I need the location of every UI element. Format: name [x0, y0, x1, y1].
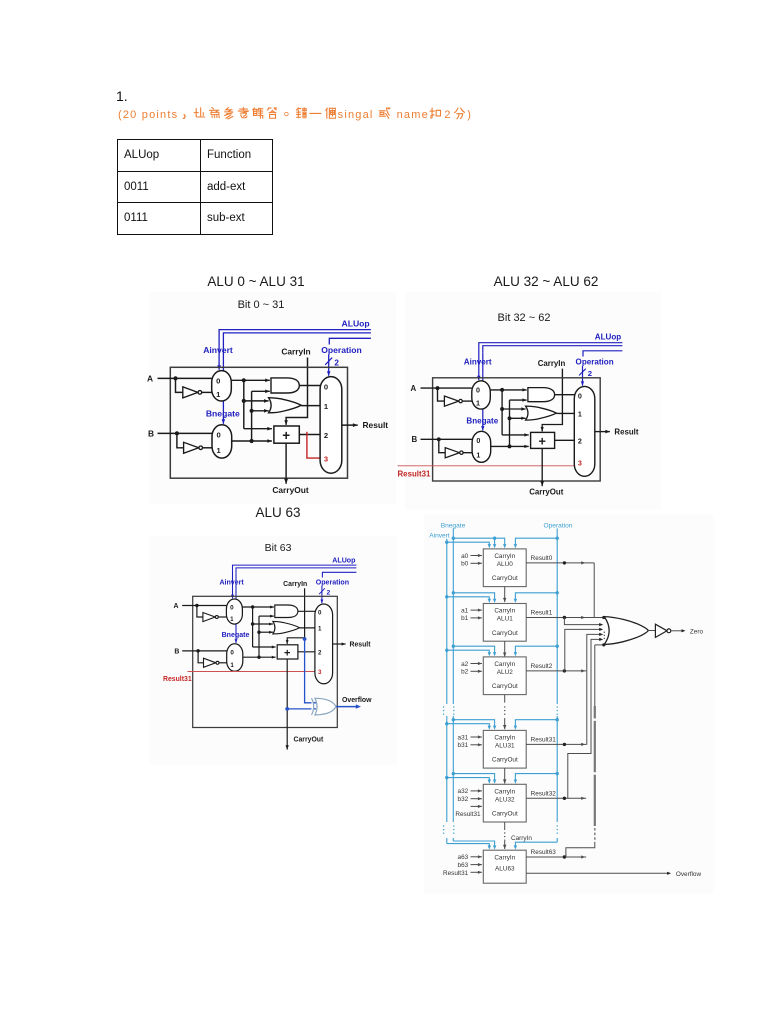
- cascade ALU63 result wire arrow: [581, 855, 585, 858]
- d2 wire A to inverter: [438, 388, 445, 401]
- d3 node a-bus junction 2: [251, 622, 254, 625]
- cascade Ainvert arrow into ALU2: [488, 652, 491, 656]
- svg-text:CarryOut: CarryOut: [272, 485, 309, 495]
- d3 wire a-bus vertical: [252, 607, 254, 647]
- d2 wire a-bus to adder: [502, 433, 529, 436]
- d1 node B junction: [175, 431, 179, 435]
- d2 wire CarryOut: [540, 448, 544, 486]
- svg-text:Operation: Operation: [316, 579, 349, 586]
- svg-text:ALU0: ALU0: [497, 561, 513, 568]
- d3 ALUop bus wire 1 (Ainvert): [233, 565, 357, 570]
- d2 Operation bus-width slash: [579, 369, 586, 376]
- cascade carry chain ellipsis dot 2: [504, 710, 505, 711]
- cascade ALU1 input a1 wire: [471, 609, 482, 612]
- d3 Bnegate control wire: [235, 574, 238, 643]
- cascade ALU32 result junction dot: [563, 797, 566, 800]
- svg-text:b0: b0: [461, 561, 469, 568]
- svg-text:Result: Result: [614, 428, 638, 437]
- cascade Bnegate control vertical wire seg2: [452, 716, 454, 822]
- cascade ALU63 result wire: [526, 856, 586, 858]
- d3 Operation control wire: [320, 586, 323, 604]
- d2 mux Bnegate (2-to-1): [472, 431, 491, 462]
- wire zero-or input 6 feed: [595, 644, 605, 646]
- svg-text:2: 2: [578, 438, 582, 446]
- d3 OR gate: [273, 621, 300, 634]
- svg-text:2: 2: [327, 590, 331, 597]
- d2 OR gate: [526, 406, 557, 420]
- cascade Operation lower ellipsis dot 3: [557, 833, 558, 834]
- svg-text:Result31: Result31: [531, 737, 557, 744]
- d3 AND gate: [275, 605, 298, 618]
- d2 wire B to inverter: [439, 439, 445, 452]
- svg-text:1: 1: [318, 626, 322, 633]
- d3 inverter gate on A: [203, 613, 215, 622]
- svg-text:b2: b2: [461, 669, 469, 676]
- cascade ALU31 result wire: [526, 743, 586, 745]
- svg-text:0: 0: [216, 376, 220, 385]
- figure background bit 32-62: [405, 292, 661, 510]
- cascade Ainvert arrow into ALU0: [488, 544, 491, 548]
- cascade Ainvert ellipsis dot 3: [443, 714, 444, 715]
- d2 mux Ainvert (2-to-1): [472, 381, 491, 409]
- cascade Bnegate branch wire to ALU1: [453, 593, 494, 599]
- d1 wire AND output to mux input 0: [299, 385, 321, 387]
- wire Result63 collector vertical thin top: [594, 645, 596, 706]
- d3 wire Result31 red input: [188, 671, 316, 673]
- d1 wire CarryOut: [284, 443, 288, 484]
- cascade Operation arrow into ALU32: [514, 780, 517, 784]
- cascade ALU31 result wire arrow: [581, 743, 585, 746]
- d3 inverter gate on B: [204, 658, 216, 667]
- cascade Operation arrow into ALU63: [514, 845, 517, 849]
- d3 wire b-bus vertical: [258, 616, 260, 657]
- wire Result63 collector dash 1: [594, 828, 596, 831]
- svg-text:CarryOut: CarryOut: [294, 737, 325, 744]
- cascade Operation branch wire to ALU32: [515, 774, 557, 780]
- cascade Operation control vertical wire seg1: [556, 529, 558, 705]
- cascade carry chain lower ellipsis dot 3: [504, 840, 505, 841]
- wire Zero output: [671, 630, 683, 632]
- cascade ALU32 block: [483, 784, 526, 822]
- svg-text:3: 3: [578, 459, 582, 467]
- cascade Bnegate tap dot at ALU32: [452, 772, 455, 775]
- wire Result63 collector vertical thick seg3: [594, 775, 596, 826]
- d2 wire A input: [421, 387, 472, 389]
- wire Result63 collector bend: [566, 842, 595, 857]
- d2 wire b-bus vertical: [509, 400, 511, 446]
- cascade Operation ellipsis dot 3: [557, 714, 558, 715]
- d1 mux Ainvert (2-to-1): [212, 371, 232, 401]
- svg-text:0: 0: [230, 605, 234, 612]
- svg-text:B: B: [148, 428, 154, 438]
- wire Overflow output: [526, 872, 668, 874]
- d1 wire a-bus vertical: [243, 380, 245, 428]
- cascade Bnegate tap dot at ALU31: [452, 718, 455, 721]
- wire zero-or input 2 arrow: [599, 623, 603, 626]
- d3 wire CarryOut: [286, 659, 289, 750]
- svg-text:CarryIn: CarryIn: [494, 735, 515, 742]
- svg-text:Overflow: Overflow: [342, 697, 372, 704]
- cascade Bnegate arrow into ALU2: [493, 652, 496, 656]
- cascade ALU32 input Result31 wire: [471, 805, 482, 808]
- cascade carry chain into ALU63: [503, 841, 506, 849]
- cascade Bnegate CarryIn branch wire to ALU0: [495, 538, 505, 544]
- cascade Ainvert tap dot at ALU1: [445, 595, 448, 598]
- svg-text:CarryOut: CarryOut: [492, 811, 518, 818]
- svg-text:ALU1: ALU1: [497, 616, 513, 623]
- d3 wire overflow xor input 2 (CarryOut): [287, 708, 316, 710]
- d2 ALUop bus wire 2 (Bnegate): [483, 346, 623, 353]
- d1 wire set-less-than red feed to mux input 3: [307, 432, 321, 458]
- d3 wire adder output to mux input 2: [298, 651, 316, 653]
- cascade Bnegate ellipsis dot 1: [453, 706, 454, 707]
- wire zero-or input 1 feed: [586, 617, 604, 619]
- d3 node b-bus junction 1: [257, 655, 260, 658]
- svg-text:+: +: [284, 648, 291, 660]
- cascade Bnegate ellipsis dot 3: [453, 714, 454, 715]
- d2 Bnegate control wire: [481, 352, 484, 430]
- problem number 1.: [116, 88, 128, 104]
- wire Result2 collector and zero-or input 3: [565, 629, 601, 671]
- svg-text:Bnegate: Bnegate: [466, 417, 498, 426]
- svg-text:3: 3: [318, 669, 322, 676]
- wire Result31 collector and zero-or input 4: [587, 634, 601, 745]
- cascade ALU31 input a31 wire: [471, 735, 482, 738]
- cascade Ainvert arrow into ALU31: [488, 726, 491, 730]
- d3 ALUop bus wire 3 (Operation): [322, 572, 356, 577]
- svg-text:Bnegate: Bnegate: [206, 408, 240, 418]
- d3 mux Ainvert (2-to-1): [226, 599, 242, 624]
- figure background bit 63: [150, 536, 397, 765]
- d1 node A junction: [173, 376, 177, 380]
- svg-text:A: A: [147, 373, 153, 383]
- svg-text:CarryOut: CarryOut: [529, 488, 564, 497]
- d2 node A junction: [436, 386, 440, 390]
- cascade Bnegate lower ellipsis dot 3: [453, 833, 454, 834]
- svg-text:Operation: Operation: [544, 522, 573, 529]
- d3 mux Bnegate (2-to-1): [227, 644, 243, 672]
- d2 wire B input: [421, 438, 473, 440]
- d3 xor gate for Overflow: [312, 698, 337, 715]
- svg-text:Result31: Result31: [398, 470, 431, 479]
- svg-text:0: 0: [318, 610, 322, 617]
- d2 wire Result output: [595, 430, 610, 434]
- d1 wire B input: [158, 432, 213, 434]
- d3 wire b-bus to OR gate: [259, 631, 273, 634]
- d2 wire Result31 red input: [398, 465, 576, 467]
- svg-text:CarryIn: CarryIn: [283, 581, 307, 588]
- cascade Bnegate arrow into ALU1: [493, 599, 496, 603]
- zero-or inputs ellipsis dot 3: [604, 638, 605, 639]
- cascade Bnegate-to-CarryIn tap dot at ALU0: [493, 537, 496, 540]
- svg-text:a1: a1: [461, 607, 469, 614]
- cascade Bnegate branch wire to ALU31: [453, 720, 494, 726]
- d1 wire a-mux output to AND gate: [231, 379, 269, 383]
- d1 ALUop bus wire 2 (Bnegate): [223, 333, 371, 340]
- wire zero-or input 5 arrow: [599, 638, 603, 641]
- svg-text:ALU 32 ~ ALU 62: ALU 32 ~ ALU 62: [494, 274, 599, 289]
- d3 ALU cell boundary box: [193, 596, 338, 727]
- svg-text:Zero: Zero: [690, 628, 704, 635]
- svg-text:2: 2: [318, 650, 322, 657]
- cascade Operation ellipsis dot 1: [557, 706, 558, 707]
- d2 CarryIn wire: [542, 369, 562, 426]
- svg-text:Bit 32 ~ 62: Bit 32 ~ 62: [498, 312, 551, 324]
- svg-text:CarryIn: CarryIn: [494, 608, 515, 615]
- cascade Bnegate control vertical wire seg1: [452, 529, 454, 705]
- svg-text:ALU31: ALU31: [495, 742, 515, 749]
- d2 inverter gate on B: [445, 448, 459, 458]
- cascade ALU2 input b2 wire: [471, 670, 482, 673]
- svg-text:CarryOut: CarryOut: [492, 575, 518, 582]
- cascade Ainvert branch wire to ALU32: [447, 778, 490, 780]
- svg-text:Ainvert: Ainvert: [464, 357, 492, 366]
- cascade carry chain into ALU31: [503, 718, 506, 729]
- cascade carry chain ALU1 to next: [503, 641, 506, 657]
- d1 wire b-bus to OR gate: [252, 409, 269, 413]
- svg-text:A: A: [174, 603, 179, 610]
- d3 wire A input: [182, 605, 226, 607]
- cascade Operation tap dot at ALU1: [556, 591, 559, 594]
- zero-or inputs ellipsis dot 1: [604, 632, 605, 633]
- cascade Operation branch wire to ALU31: [515, 720, 557, 726]
- cascade Operation control vertical wire seg3: [556, 838, 558, 842]
- svg-text:1: 1: [230, 662, 234, 669]
- svg-text:ALU 63: ALU 63: [255, 505, 300, 520]
- d1 CarryIn wire: [286, 358, 307, 420]
- svg-text:A: A: [411, 384, 417, 393]
- svg-text:0: 0: [578, 392, 582, 400]
- d1 node b-bus junction 1: [250, 439, 254, 443]
- cascade ALU1 block: [483, 604, 526, 642]
- svg-text:CarryIn: CarryIn: [511, 835, 532, 842]
- cascade carry chain ALU0 to next: [503, 587, 506, 603]
- cascade ALU0 block: [483, 549, 526, 587]
- or-gate U-zero: [604, 617, 648, 645]
- cascade carry chain lower ellipsis dot 2: [504, 836, 505, 837]
- svg-text:Ainvert: Ainvert: [429, 532, 450, 539]
- d1 wire b-bus to AND gate: [252, 390, 270, 394]
- d3 wire B to inverter: [198, 651, 203, 663]
- svg-text:0: 0: [324, 383, 328, 392]
- svg-text:a0: a0: [461, 553, 469, 560]
- svg-text:CarryOut: CarryOut: [492, 630, 518, 637]
- d2 wire AND output to mux input 0: [555, 394, 576, 396]
- d3 wire a-bus to adder: [253, 646, 276, 649]
- cascade ALU1 input b1 wire: [471, 616, 482, 619]
- svg-text:0: 0: [230, 649, 234, 656]
- cascade Ainvert lower ellipsis dot 3: [443, 833, 444, 834]
- d2 node b-bus junction 2: [508, 416, 512, 420]
- d1 Bnegate control wire: [222, 340, 226, 424]
- wire Result0 collector vertical: [593, 563, 595, 618]
- cascade Operation tap dot at ALU31: [556, 718, 559, 721]
- svg-text:2: 2: [324, 431, 328, 440]
- d2 ALUop bus wire 1 (Ainvert): [479, 343, 623, 349]
- d1 wire a-bus to OR gate: [244, 399, 269, 403]
- svg-text:CarryIn: CarryIn: [494, 854, 515, 861]
- wire zero-or input 4 arrow: [599, 633, 603, 636]
- cascade Operation lower ellipsis dot 2: [557, 829, 558, 830]
- cascade Operation arrow into ALU2: [514, 652, 517, 656]
- d3 node CarryOut tap for overflow: [285, 707, 289, 711]
- cascade Operation ellipsis dot 2: [557, 710, 558, 711]
- svg-text:ALU32: ALU32: [495, 796, 515, 803]
- d1 wire inverter B output: [203, 447, 212, 449]
- wire zero-or input 3 arrow: [599, 628, 603, 631]
- d2 Ainvert control wire: [477, 349, 480, 381]
- svg-text:Overflow: Overflow: [676, 871, 702, 878]
- svg-text:a2: a2: [461, 661, 469, 668]
- d1 AND gate: [271, 378, 299, 393]
- cascade Ainvert ellipsis dot 2: [443, 710, 444, 711]
- d2 wire b-bus to AND gate: [510, 398, 527, 401]
- cascade Ainvert arrow into ALU1: [488, 599, 491, 603]
- d3 wire A to inverter: [197, 606, 203, 618]
- svg-text:+: +: [538, 435, 545, 449]
- d3 wire Overflow output arrow: [356, 704, 361, 708]
- d2 wire a-mux output to AND gate: [490, 388, 526, 391]
- d3 wire Result output: [333, 643, 346, 646]
- d3 node CarryIn tap for overflow: [303, 637, 307, 641]
- cascade ALU0 result junction dot: [563, 561, 566, 564]
- d1 Operation bus-width slash: [325, 358, 332, 365]
- cascade carry chain lower ellipsis dot 1: [504, 832, 505, 833]
- cascade Operation tap dot at ALU32: [556, 772, 559, 775]
- d3 wire b-mux output to adder: [243, 656, 276, 659]
- cascade Ainvert ellipsis dot 1: [443, 706, 444, 707]
- d2 node a-bus junction 1: [500, 388, 504, 392]
- cascade Bnegate branch wire to ALU0: [453, 538, 494, 544]
- d3 wire b-bus to AND gate: [259, 615, 274, 618]
- cascade carry chain ALU32 segment: [504, 822, 506, 830]
- svg-text:B: B: [412, 435, 418, 444]
- d1 wire B to inverter: [177, 433, 184, 447]
- svg-text:0: 0: [476, 387, 480, 395]
- d2 node b-bus junction 1: [508, 444, 512, 448]
- svg-text:Bnegate: Bnegate: [441, 522, 466, 529]
- d3 wire a-mux output to AND gate: [242, 606, 274, 609]
- d1 Ainvert control wire: [217, 336, 221, 370]
- cascade Operation branch wire to ALU0: [515, 538, 557, 544]
- d2 ALUop bus wire 3 (Operation): [583, 351, 622, 357]
- svg-text:1: 1: [476, 451, 480, 459]
- cascade Ainvert branch wire to ALU1: [447, 597, 490, 599]
- cascade Ainvert final bend wire to ALU63: [447, 844, 490, 846]
- cascade ALU2 result junction dot: [563, 669, 566, 672]
- svg-text:ALU63: ALU63: [495, 866, 515, 873]
- cascade Operation branch wire to ALU1: [515, 593, 557, 599]
- cascade Bnegate final bend wire to ALU63: [453, 841, 494, 846]
- svg-text:1: 1: [230, 616, 234, 623]
- d1 node b-bus junction 2: [250, 409, 254, 413]
- cascade carry chain ellipsis dot 3: [504, 714, 505, 715]
- cascade Bnegate ellipsis dot 2: [453, 710, 454, 711]
- d2 wire a-bus vertical: [501, 390, 503, 435]
- d3 adder: [277, 645, 298, 659]
- svg-text:2: 2: [588, 369, 592, 378]
- d1 wire adder output to mux input 2: [299, 434, 321, 436]
- svg-text:Result1: Result1: [531, 610, 553, 617]
- cascade Bnegate arrow into ALU63: [493, 845, 496, 849]
- d2 wire b-mux output to adder: [491, 445, 529, 448]
- cascade ALU1 result wire: [526, 617, 604, 619]
- d1 inverter gate on A: [183, 387, 198, 398]
- svg-text:Result31: Result31: [455, 811, 481, 818]
- d1 node a-bus junction 2: [242, 399, 246, 403]
- d3 node B junction: [196, 649, 199, 652]
- svg-text:Operation: Operation: [321, 345, 362, 355]
- wire Overflow output arrow: [667, 872, 671, 875]
- svg-text:Ainvert: Ainvert: [219, 579, 244, 586]
- svg-text:b32: b32: [458, 796, 469, 803]
- d1 Operation control wire: [327, 355, 331, 376]
- d2 Operation control wire: [581, 366, 584, 386]
- svg-text:1: 1: [476, 400, 480, 408]
- svg-text:a63: a63: [458, 854, 469, 861]
- cascade ALU32 input a32 wire: [471, 789, 482, 792]
- svg-text:CarryIn: CarryIn: [538, 359, 566, 368]
- svg-text:CarryIn: CarryIn: [494, 553, 515, 560]
- d2 adder: [531, 432, 555, 448]
- d3 mux Result (4-to-1): [315, 604, 333, 684]
- cascade ALU63 input a63 wire: [471, 855, 482, 858]
- cascade ALU0 input b0 wire: [471, 562, 482, 565]
- svg-text:ALU2: ALU2: [497, 669, 513, 676]
- svg-text:Result32: Result32: [531, 791, 557, 798]
- cascade Ainvert branch wire to ALU0: [447, 542, 490, 544]
- d1 wire inverter A output: [202, 391, 212, 393]
- svg-text:Result31: Result31: [163, 676, 192, 683]
- d1 OR gate: [269, 398, 302, 413]
- cascade ALU63 block: [483, 850, 526, 883]
- d1 ALUop bus wire 3 (Operation): [329, 338, 371, 344]
- cascade ALU0 result wire: [526, 562, 594, 564]
- wire Result63 collector vertical thick seg1: [594, 706, 596, 718]
- cascade Bnegate tap dot at ALU1: [452, 591, 455, 594]
- svg-text:b1: b1: [461, 615, 469, 622]
- cascade ALU32 input b32 wire: [471, 797, 482, 800]
- inverter U-zero-inv: [655, 624, 667, 637]
- cascade carry chain ALU31 to next: [503, 768, 506, 784]
- cascade Bnegate arrow into ALU0: [493, 544, 496, 548]
- d3 node b-bus junction 2: [257, 630, 260, 633]
- svg-text:B: B: [174, 648, 179, 655]
- svg-text:Result: Result: [363, 420, 389, 430]
- cascade ALU31 block: [483, 730, 526, 768]
- d3 wire Overflow output: [336, 706, 357, 708]
- d3 wire overflow xor input 1 (CarryIn): [305, 639, 316, 703]
- wire zero-or input 2 hook from Result1: [564, 618, 601, 625]
- d3 wire a-bus to OR gate: [253, 623, 273, 626]
- d1 inverter gate on B: [184, 442, 199, 453]
- svg-text:Result0: Result0: [531, 555, 553, 562]
- cascade ALU2 result wire: [526, 670, 586, 672]
- d2 ALU cell boundary box: [433, 378, 601, 481]
- cascade Bnegate arrow into ALU31: [493, 726, 496, 730]
- d1 CarryIn wire into adder: [284, 419, 288, 425]
- cascade ALU31 result junction dot: [563, 743, 566, 746]
- cascade ALU0 input a0 wire: [471, 554, 482, 557]
- cascade Operation branch wire to ALU2: [515, 646, 557, 652]
- cascade ALU1 result junction dot: [563, 616, 566, 619]
- cascade Ainvert control vertical wire seg3: [446, 838, 448, 844]
- svg-text:+: +: [282, 428, 290, 443]
- d3 node a-bus junction 1: [251, 605, 254, 608]
- svg-text:Result2: Result2: [531, 663, 553, 670]
- d1 wire b-bus vertical: [251, 391, 253, 441]
- table ALUop / Function: [117, 139, 273, 235]
